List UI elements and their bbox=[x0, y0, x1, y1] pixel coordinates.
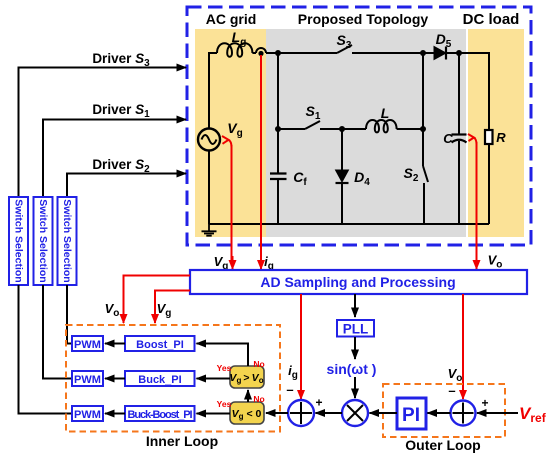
Vg>Vo decision box bbox=[230, 366, 264, 388]
switch S3 bbox=[337, 45, 352, 53]
svg-text:Inner Loop: Inner Loop bbox=[146, 433, 218, 449]
ground bbox=[202, 224, 217, 236]
svg-text:DC load: DC load bbox=[463, 11, 520, 28]
DC load background region bbox=[468, 29, 524, 237]
svg-text:Buck-Boost_PI: Buck-Boost_PI bbox=[128, 409, 193, 421]
wire middle rail to S1 bbox=[278, 128, 305, 130]
node middle rail left bbox=[275, 126, 281, 132]
bottom rail bbox=[209, 223, 489, 225]
svg-text:Driver S1: Driver S1 bbox=[92, 102, 150, 120]
svg-text:ig: ig bbox=[288, 363, 298, 381]
circuit enclosure dashed border bbox=[187, 7, 531, 245]
switch S2 bbox=[422, 129, 424, 166]
No path Vg>Vo to Boost_PI bbox=[197, 344, 249, 367]
svg-text:Boost_PI: Boost_PI bbox=[136, 339, 184, 351]
Inner Loop dashed box bbox=[66, 325, 280, 432]
wire Cf branch lower bbox=[277, 179, 279, 224]
wire S1 to L bbox=[320, 128, 366, 130]
svg-text:Vg < 0: Vg < 0 bbox=[232, 408, 262, 421]
wire AC source to bottom rail bbox=[208, 150, 210, 224]
diode D5 bbox=[434, 47, 446, 60]
Switch Selection box 2 bbox=[34, 197, 53, 285]
wire switch selection 2 to PWM2 bbox=[43, 285, 72, 379]
svg-text:Vo: Vo bbox=[488, 253, 503, 271]
svg-text:PWM: PWM bbox=[74, 339, 101, 351]
red feed Vo to voltage summer bbox=[462, 294, 464, 399]
Driver S1 line bbox=[43, 120, 186, 198]
wire top-left from AC source up bbox=[209, 53, 217, 129]
svg-text:+: + bbox=[315, 396, 322, 410]
svg-text:Outer Loop: Outer Loop bbox=[405, 437, 480, 453]
node top of D4 branch bbox=[339, 126, 345, 132]
arrow AD to PLL bbox=[354, 294, 356, 317]
Yes path Vg>Vo to Buck_PI bbox=[197, 378, 231, 380]
Vg probe hook bbox=[222, 136, 232, 147]
inductor Lg bbox=[217, 43, 252, 57]
svg-text:PWM: PWM bbox=[74, 374, 101, 386]
svg-text:Switch Selection: Switch Selection bbox=[61, 199, 73, 282]
arrow summer to Vg<0 bbox=[266, 412, 288, 414]
wire switch selection 3 to PWM1 bbox=[67, 285, 72, 344]
voltage summer circle bbox=[451, 401, 476, 426]
svg-text:Buck_PI: Buck_PI bbox=[138, 374, 181, 386]
arrow Buck_PI to PWM2 bbox=[105, 378, 125, 380]
node top of Cf branch bbox=[275, 50, 281, 56]
wire C branch upper bbox=[458, 53, 460, 134]
Driver S2 line bbox=[67, 174, 186, 198]
wire L to S2 branch bbox=[397, 128, 423, 130]
arrow multiplier to summer bbox=[316, 412, 343, 414]
Buck-Boost_PI box bbox=[125, 406, 195, 421]
inductor L bbox=[366, 120, 397, 132]
multiplier circle bbox=[342, 400, 368, 426]
wire S3 to D5 bbox=[352, 52, 434, 54]
svg-text:No: No bbox=[253, 394, 264, 404]
svg-text:Switch Selection: Switch Selection bbox=[37, 199, 49, 282]
capacitor Cf plates bbox=[270, 174, 287, 180]
current sensor bump node ig bbox=[256, 48, 266, 53]
Vg sense wire bbox=[232, 145, 233, 263]
svg-text:Vg > Vo: Vg > Vo bbox=[229, 372, 263, 385]
wire R lower to bottom rail bbox=[488, 144, 490, 224]
red feed Vg to inner loop bbox=[155, 291, 190, 324]
arrow Vref to voltage summer bbox=[477, 412, 518, 414]
Switch Selection box 3 bbox=[58, 197, 77, 285]
node top of C branch bbox=[456, 50, 462, 56]
AC grid background region bbox=[195, 29, 266, 237]
svg-text:Vg: Vg bbox=[157, 301, 172, 319]
wire D4 branch lower bbox=[341, 183, 343, 224]
arrow PLL to sin bbox=[354, 337, 356, 359]
svg-text:Vo: Vo bbox=[448, 366, 463, 384]
wire top rail to S3 bbox=[266, 52, 337, 54]
wire after Lg bbox=[252, 52, 256, 54]
wire Cf branch upper bbox=[277, 53, 279, 173]
svg-text:–: – bbox=[448, 383, 455, 398]
svg-text:PLL: PLL bbox=[343, 322, 369, 337]
svg-text:Vref: Vref bbox=[519, 404, 547, 425]
arrow PI to multiplier bbox=[370, 412, 398, 414]
resistor R bbox=[485, 130, 493, 144]
svg-text:L: L bbox=[381, 105, 390, 121]
Vg<0 decision box bbox=[230, 402, 264, 424]
PLL box bbox=[337, 320, 374, 337]
svg-text:Switch Selection: Switch Selection bbox=[13, 199, 25, 282]
svg-text:Driver S2: Driver S2 bbox=[92, 157, 150, 175]
svg-text:PWM: PWM bbox=[74, 409, 101, 421]
Outer Loop dashed box bbox=[383, 384, 505, 437]
Yes path Vg<0 to Buck-Boost_PI bbox=[197, 413, 231, 415]
switch S1 bbox=[305, 121, 320, 129]
wire S2 branch from top rail bbox=[422, 53, 424, 129]
svg-text:Yes: Yes bbox=[217, 399, 232, 409]
red feed ig to current summer bbox=[300, 294, 302, 399]
svg-text:+: + bbox=[481, 396, 488, 410]
AC source Vg bbox=[198, 129, 220, 151]
wire D5 to top-right corner bbox=[446, 53, 489, 130]
Boost_PI box bbox=[125, 336, 195, 351]
svg-text:R: R bbox=[496, 130, 506, 145]
wire D4 branch upper bbox=[341, 129, 343, 170]
current summer circle bbox=[288, 400, 314, 426]
svg-text:sin(ωt ): sin(ωt ) bbox=[327, 361, 377, 377]
Vo sense wire bbox=[476, 142, 478, 269]
svg-text:C: C bbox=[443, 131, 453, 146]
capacitor C plates bbox=[452, 133, 467, 135]
Driver S3 line bbox=[19, 68, 187, 198]
PWM box 3 bbox=[72, 406, 103, 421]
svg-text:–: – bbox=[286, 382, 293, 397]
wire C branch lower bbox=[458, 141, 460, 224]
svg-text:Vo: Vo bbox=[105, 301, 120, 319]
Switch Selection box 1 bbox=[9, 197, 28, 285]
PWM box 2 bbox=[72, 371, 103, 386]
svg-text:Driver S3: Driver S3 bbox=[92, 51, 150, 69]
Proposed Topology background region bbox=[266, 29, 466, 237]
red feed Vo to inner loop bbox=[124, 276, 191, 324]
wire switch selection 1 to PWM3 bbox=[19, 285, 73, 414]
diode D4 bbox=[336, 170, 349, 182]
svg-text:AD Sampling and Processing: AD Sampling and Processing bbox=[260, 274, 455, 290]
No path Vg<0 to Vg>Vo bbox=[247, 390, 249, 402]
node right of L bbox=[420, 126, 426, 132]
svg-text:Proposed Topology: Proposed Topology bbox=[298, 11, 429, 27]
Buck_PI box bbox=[125, 371, 195, 386]
AD Sampling and Processing box bbox=[190, 270, 527, 294]
svg-text:No: No bbox=[253, 359, 264, 369]
arrow Buck-Boost_PI to PWM3 bbox=[105, 413, 125, 415]
ig sense wire bbox=[260, 55, 262, 269]
Vo probe hook bbox=[468, 134, 477, 144]
svg-text:AC grid: AC grid bbox=[206, 11, 257, 27]
svg-text:Yes: Yes bbox=[217, 363, 232, 373]
arrow sin to multiplier bbox=[354, 377, 356, 398]
arrow Boost_PI to PWM1 bbox=[105, 343, 125, 345]
node top of S2 branch bbox=[420, 50, 426, 56]
PWM box 1 bbox=[72, 336, 103, 351]
arrow voltage summer to PI bbox=[428, 412, 451, 414]
PI box bbox=[397, 398, 426, 429]
svg-text:PI: PI bbox=[402, 405, 420, 426]
